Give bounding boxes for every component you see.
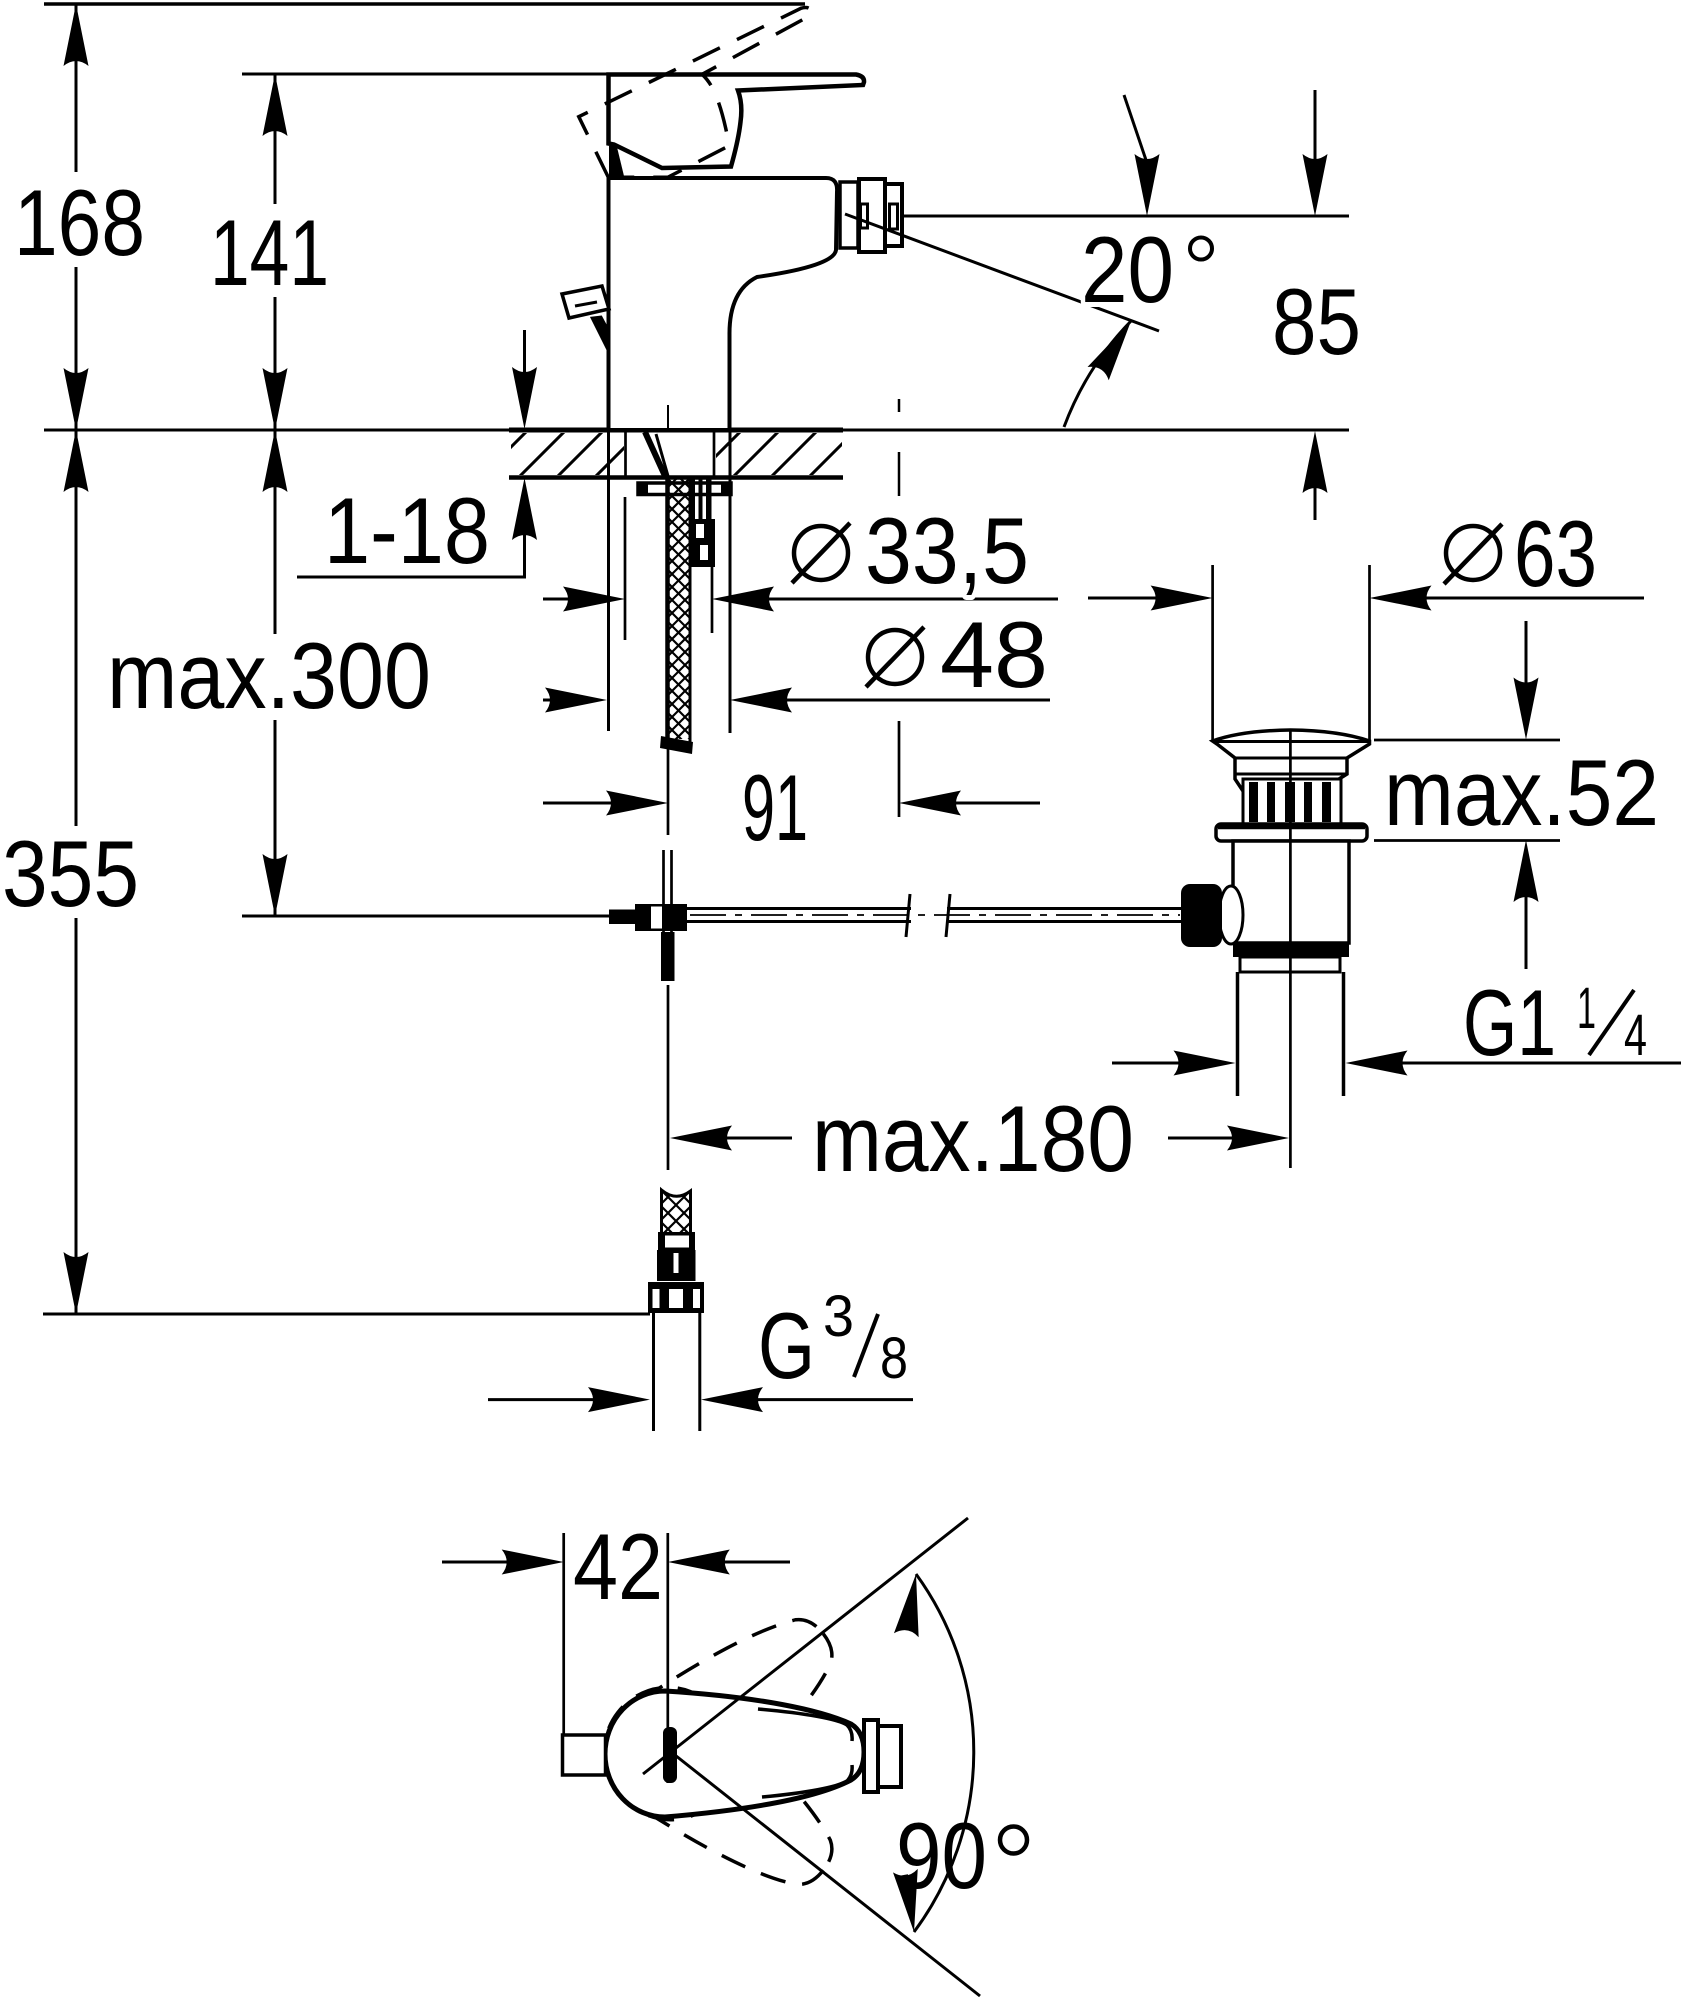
horizontal pop-up rod right segment <box>947 907 1182 910</box>
mounting hole right edge <box>713 430 716 477</box>
dashed raised handle (alternate position) <box>579 5 850 201</box>
svg-text:max.300: max.300 <box>107 623 431 728</box>
svg-text:91: 91 <box>742 755 808 860</box>
body edge extensions through slab (O48) <box>607 430 610 731</box>
drain seat disc <box>1216 824 1367 841</box>
svg-text:4: 4 <box>1624 1003 1647 1068</box>
dashed swivel outline lower <box>579 1663 861 1922</box>
svg-text:max.52: max.52 <box>1384 740 1659 845</box>
dimension max.180 <box>668 985 1289 1191</box>
handle lower-left corner fill <box>609 143 624 176</box>
svg-text:20: 20 <box>1081 217 1174 322</box>
svg-text:33,5: 33,5 <box>865 498 1029 603</box>
dimension max.300 <box>99 430 440 916</box>
dimension G1 1/4 <box>1112 970 1681 1076</box>
dimension 355 <box>0 430 148 1314</box>
svg-text:355: 355 <box>2 821 139 926</box>
dimension 91 <box>543 721 1040 860</box>
drain ball joint knob <box>1181 884 1222 947</box>
pop-up knob (top view) <box>563 1735 606 1775</box>
svg-text:G1: G1 <box>1463 970 1556 1075</box>
drain ball joint ellipse <box>1219 886 1243 944</box>
aerator inner detail left <box>861 204 868 228</box>
90 arc arrowhead top <box>894 1572 928 1637</box>
aerator inner detail right <box>890 204 898 229</box>
faucet body (top view) <box>605 1691 864 1817</box>
42 dimension line with arrows <box>442 1561 508 1564</box>
mounting washer under deck <box>638 483 731 495</box>
mounting washer left block <box>638 483 648 495</box>
shank nut <box>690 519 715 567</box>
svg-text:1-18: 1-18 <box>324 478 490 583</box>
faucet body (side view) <box>609 178 838 430</box>
horizontal pop-up rod left segment <box>687 907 911 910</box>
drain plug dome and neck <box>1213 730 1370 791</box>
dimension 168 <box>5 4 153 430</box>
reference line rod level (max.300 datum) <box>242 915 614 918</box>
rod break tick right <box>946 894 950 937</box>
reference line handle top (141 datum) <box>242 73 620 76</box>
dimension 85 <box>1272 90 1361 520</box>
pop-up knob inner line <box>575 302 597 306</box>
svg-text:63: 63 <box>1514 501 1597 606</box>
mounting hole left edge <box>624 430 627 477</box>
countertop slab top edge <box>509 428 843 433</box>
countertop slab bottom edge <box>509 475 843 480</box>
drain plug flange top line <box>1213 740 1370 743</box>
drain center line <box>1289 731 1292 1168</box>
dimension O63 <box>1088 501 1644 740</box>
drain crown with slots <box>1243 779 1341 824</box>
90 degree line upper <box>643 1518 968 1774</box>
lower hose fitting <box>657 1250 696 1281</box>
cartridge slot bar (top view) <box>663 1727 677 1783</box>
pop-up knob on body left <box>562 286 609 318</box>
drain body bottom nut band <box>1233 943 1349 957</box>
90 degree arc <box>914 1574 974 1932</box>
svg-text:max.180: max.180 <box>812 1086 1134 1191</box>
90 arc arrowhead bottom <box>893 1869 926 1934</box>
svg-text:48: 48 <box>940 602 1048 707</box>
svg-text:141: 141 <box>210 200 329 305</box>
dashed swivel outline upper <box>582 1586 864 1845</box>
spout axis dashed extension below deck <box>898 399 901 498</box>
rod break tick left <box>906 894 910 937</box>
svg-text:3: 3 <box>823 1284 854 1349</box>
90 degree line lower <box>666 1748 980 1996</box>
aerator ring <box>840 182 858 248</box>
dimension max.52 <box>1374 621 1668 969</box>
aerator block <box>859 179 885 252</box>
reference line top (168 datum) <box>44 2 805 6</box>
42 dimension extension lines <box>562 1533 565 1735</box>
countertop slab hatching <box>480 428 858 478</box>
handle inner line bottom (top view) <box>762 1765 852 1797</box>
drain plug neck lines <box>1235 757 1347 760</box>
reference line bottom (355 datum) <box>43 1313 650 1316</box>
pop-up lift rod vertical <box>662 850 665 932</box>
handle inner line top (top view) <box>758 1709 852 1741</box>
svg-text:168: 168 <box>14 170 145 275</box>
rod center line <box>690 914 1180 916</box>
svg-text:8: 8 <box>880 1326 908 1391</box>
mounting washer right block <box>721 482 732 496</box>
dimension O33,5 <box>543 497 1058 640</box>
reference line aerator level <box>896 215 1349 218</box>
G3/8 nut <box>648 1282 704 1313</box>
threaded shank stripes <box>691 477 712 519</box>
hose end fitting (upper hose) <box>660 736 693 754</box>
svg-text:85: 85 <box>1272 269 1361 374</box>
dimension 20 degrees leader <box>1064 95 1212 427</box>
aerator ring (top view) <box>864 1720 878 1792</box>
dimension 1-18 <box>297 330 537 583</box>
supply hose braid (upper) <box>666 464 691 775</box>
dimension O48 <box>543 602 1050 713</box>
lower supply hose braid <box>661 1174 691 1252</box>
drain waste body <box>1233 841 1349 943</box>
dimension 141 <box>201 74 341 430</box>
lower hose ferrule <box>658 1232 695 1250</box>
20 degree spout axis line <box>845 214 1159 331</box>
funnel inside mounting hole <box>645 432 665 476</box>
aerator cap (top view) <box>878 1726 901 1787</box>
reference line countertop <box>44 429 1349 432</box>
pop-up knob support <box>592 317 608 346</box>
faucet handle (side view, solid) <box>609 75 865 169</box>
body centre line stub <box>667 405 669 428</box>
drain tailpipe <box>1236 972 1240 1096</box>
aerator cap <box>885 184 902 246</box>
svg-text:1: 1 <box>1577 976 1596 1041</box>
svg-text:42: 42 <box>573 1514 663 1619</box>
rod clevis <box>609 910 635 925</box>
svg-text:G: G <box>758 1293 815 1398</box>
G3/8 threaded pipe <box>652 1313 655 1431</box>
dimension G3/8 <box>488 1284 913 1412</box>
drain ring <box>1240 957 1340 972</box>
